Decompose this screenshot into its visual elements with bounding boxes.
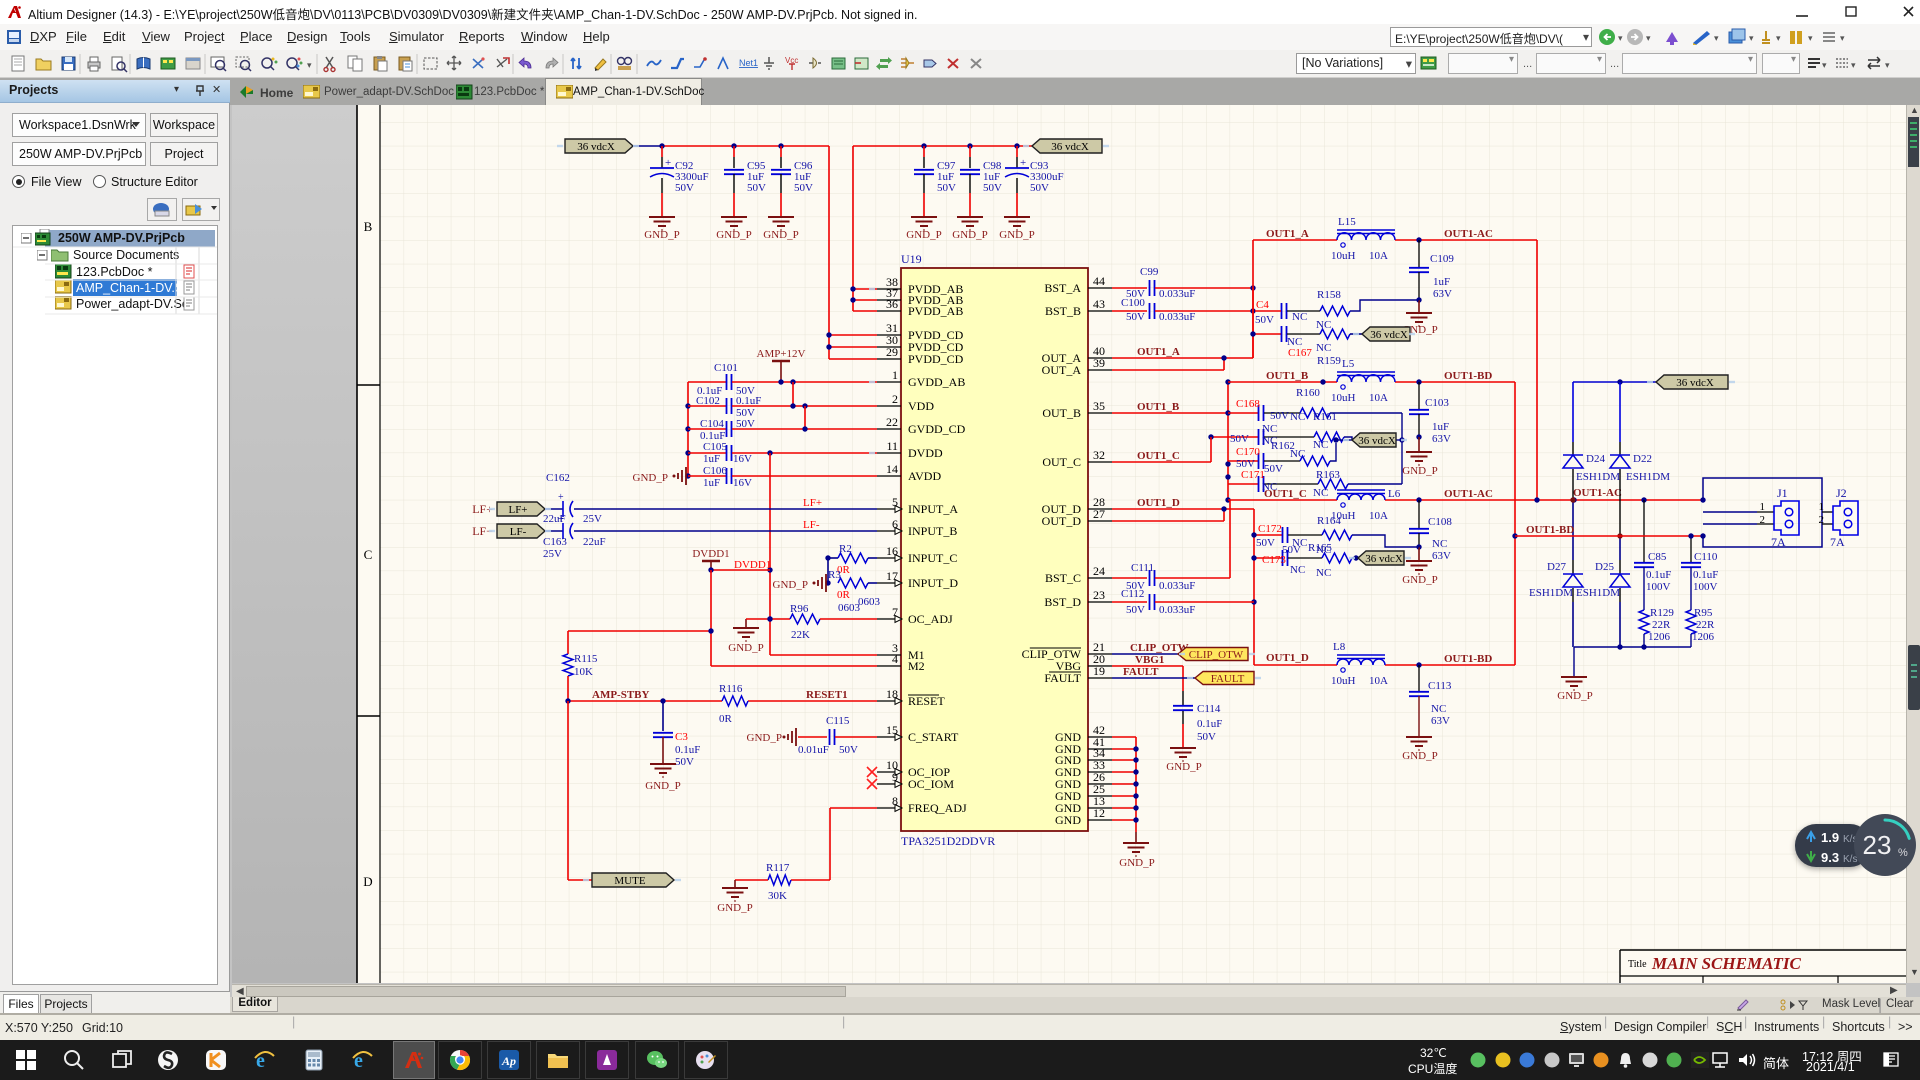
svg-text:7A: 7A: [1830, 535, 1845, 549]
title bar: [0, 0, 1920, 24]
svg-text:FAULT: FAULT: [1211, 673, 1245, 685]
resistor R164b: [1322, 530, 1352, 540]
svg-text:10A: 10A: [1369, 675, 1388, 687]
svg-text:D: D: [363, 874, 372, 889]
svg-text:63V: 63V: [1433, 288, 1452, 300]
pin 2 VDD: [877, 405, 901, 407]
capacitor C101: [688, 381, 726, 383]
ground GND_P at R117: [734, 880, 736, 888]
svg-text:▾: ▾: [1618, 33, 1623, 43]
capacitor C3: [662, 701, 664, 731]
port 36vdcX top-right: [1032, 139, 1102, 153]
svg-text:0.1uF: 0.1uF: [1197, 718, 1222, 730]
svg-text:0.1uF: 0.1uF: [736, 395, 761, 407]
svg-text:R117: R117: [766, 862, 790, 874]
ground GND_P under C114: [1170, 747, 1196, 749]
svg-text:GND_P: GND_P: [717, 902, 752, 914]
svg-text:R95: R95: [1694, 607, 1713, 619]
wire 36vdcX diode feed: [1573, 381, 1656, 383]
svg-text:FREQ_ADJ: FREQ_ADJ: [908, 801, 967, 815]
svg-text:GND_P: GND_P: [1402, 750, 1437, 762]
svg-text:0603: 0603: [858, 596, 881, 608]
capacitor C103: [1418, 382, 1420, 409]
resistor R117: [768, 875, 791, 885]
wire VDD jogs: [778, 379, 783, 384]
taskbar: [0, 1040, 1920, 1080]
pin 35 OUT_B: [1088, 412, 1112, 414]
svg-text:▾: ▾: [1749, 33, 1754, 43]
net speed widget: [1795, 824, 1871, 867]
svg-text:C105: C105: [703, 441, 727, 453]
svg-text:R161: R161: [1313, 411, 1337, 423]
svg-text:OUT1_B: OUT1_B: [1266, 370, 1309, 382]
svg-text:R163: R163: [1316, 469, 1340, 481]
pin 3 M1: [877, 654, 901, 656]
port 36vdcX right: [1656, 375, 1728, 389]
svg-text:0.01uF: 0.01uF: [798, 744, 829, 756]
svg-text:4: 4: [892, 652, 898, 666]
pin 4 M2: [877, 665, 901, 667]
svg-text:ESH1DM: ESH1DM: [1626, 471, 1670, 483]
svg-text:1.9: 1.9: [1821, 830, 1839, 845]
svg-text:R3: R3: [828, 569, 841, 581]
ground GND_P under C98: [957, 216, 983, 218]
svg-text:24: 24: [1093, 564, 1105, 578]
capacitor C109: [1418, 240, 1420, 267]
svg-text:R2: R2: [839, 543, 852, 555]
svg-text:ESH1DM: ESH1DM: [1576, 471, 1620, 483]
resistor R161: [1314, 432, 1344, 442]
svg-text:50V: 50V: [1230, 433, 1249, 445]
svg-text:D22: D22: [1633, 453, 1652, 465]
svg-text:50V: 50V: [1126, 604, 1145, 616]
svg-text:L15: L15: [1338, 216, 1356, 228]
svg-text:36 vdcX: 36 vdcX: [577, 141, 615, 153]
diode D24: [1572, 382, 1574, 442]
svg-text:LF+: LF+: [803, 497, 822, 509]
resistor R116: [722, 696, 748, 706]
svg-text:50V: 50V: [675, 756, 694, 768]
svg-text:C114: C114: [1197, 703, 1221, 715]
pin 38 PVDD_AB: [877, 288, 901, 290]
capacitor C93: [1016, 146, 1018, 157]
capacitor C4: [1281, 303, 1283, 319]
svg-text:50V: 50V: [794, 182, 813, 194]
svg-text:NC: NC: [1262, 423, 1277, 435]
svg-text:J2: J2: [1836, 486, 1847, 500]
svg-text:C110: C110: [1694, 551, 1718, 563]
capacitor C104: [688, 428, 726, 430]
svg-text:0.033uF: 0.033uF: [1159, 604, 1195, 616]
wire INPUT_B: [574, 530, 877, 532]
pin 44 BST_A: [1088, 287, 1112, 289]
wire OUT_B vertical: [1227, 382, 1229, 500]
resistor R129: [1639, 610, 1649, 634]
capacitor C100: [1112, 310, 1147, 312]
ground GND_P under GND bus: [1135, 832, 1137, 843]
ground GND_P under C93: [1004, 216, 1030, 218]
svg-text:7A: 7A: [1771, 535, 1786, 549]
svg-text:25V: 25V: [583, 513, 602, 525]
svg-text:R96: R96: [790, 603, 809, 615]
pin 17 INPUT_D: [877, 582, 901, 584]
svg-text:OUT_D: OUT_D: [1042, 514, 1082, 528]
svg-text:36 vdcX: 36 vdcX: [1370, 329, 1408, 341]
svg-text:2: 2: [1760, 514, 1766, 526]
svg-text:C4: C4: [1256, 299, 1269, 311]
pin 28 OUT_D: [1088, 508, 1112, 510]
svg-text:1uF: 1uF: [1432, 421, 1449, 433]
svg-text:Title: Title: [1628, 959, 1647, 970]
svg-text:NC: NC: [1432, 538, 1447, 550]
svg-text:C101: C101: [714, 362, 738, 374]
svg-text:LF-: LF-: [803, 519, 820, 531]
svg-text:▾: ▾: [1851, 60, 1856, 70]
svg-text:C115: C115: [826, 715, 850, 727]
svg-text:INPUT_D: INPUT_D: [908, 576, 958, 590]
pin 41 GND: [1088, 748, 1112, 750]
wire GND bus: [1112, 736, 1136, 738]
pin 16 INPUT_C: [877, 557, 901, 559]
svg-text:ESH1DM: ESH1DM: [1529, 587, 1573, 599]
svg-text:10uH: 10uH: [1331, 392, 1356, 404]
tab bar: [0, 78, 1920, 105]
svg-text:R116: R116: [719, 683, 743, 695]
capacitor C168 row: [1228, 412, 1258, 414]
svg-text:C_START: C_START: [908, 730, 959, 744]
wire MUTE: [567, 701, 569, 880]
wire left cap bus: [687, 382, 689, 476]
svg-text:GVDD_CD: GVDD_CD: [908, 422, 966, 436]
capacitor C111: [1112, 577, 1147, 579]
svg-text:63V: 63V: [1432, 550, 1451, 562]
diode D27: [1572, 500, 1574, 560]
capacitor C105: [688, 452, 726, 454]
svg-text:BST_B: BST_B: [1045, 304, 1081, 318]
title block: [1620, 950, 1912, 983]
wire R2/R3 bus: [827, 558, 829, 583]
pin 14 AVDD: [877, 475, 901, 477]
svg-text:GND_P: GND_P: [633, 472, 668, 484]
capacitor C170 row: [1228, 460, 1258, 462]
pin 43 BST_B: [1088, 310, 1112, 312]
svg-text:C109: C109: [1430, 253, 1454, 265]
wire OUT1-AC vertical: [1536, 240, 1538, 500]
svg-text:C170: C170: [1236, 446, 1260, 458]
svg-text:PVDD_CD: PVDD_CD: [908, 352, 964, 366]
svg-text:C111: C111: [1131, 562, 1154, 574]
svg-text:0.1uF: 0.1uF: [1646, 569, 1671, 581]
svg-text:OUT_A: OUT_A: [1042, 363, 1082, 377]
svg-text:GND_P: GND_P: [1402, 465, 1437, 477]
svg-text:OUT1-BD: OUT1-BD: [1444, 370, 1492, 382]
wire OUT1_A rail: [1253, 239, 1337, 241]
svg-text:L6: L6: [1388, 488, 1401, 500]
pin 31 PVDD_CD: [877, 334, 901, 336]
svg-text:63V: 63V: [1431, 715, 1450, 727]
svg-text:22R: 22R: [1696, 619, 1715, 631]
svg-text:NC: NC: [1292, 311, 1307, 323]
pin 21 CLIP_OTW: [1088, 653, 1112, 655]
svg-text:▾: ▾: [1822, 60, 1827, 70]
svg-text:GND_P: GND_P: [1402, 574, 1437, 586]
svg-text:C113: C113: [1428, 680, 1452, 692]
wire PVDD_CD feed: [828, 146, 830, 359]
files/projects tabs: [0, 991, 230, 1013]
wire PVDD_AB feed: [852, 146, 854, 311]
pin 10 OC_IOP: [877, 771, 901, 773]
wire R115 top: [568, 630, 711, 632]
svg-text:C108: C108: [1428, 516, 1452, 528]
svg-text:R164: R164: [1317, 515, 1341, 527]
svg-text:VDD: VDD: [908, 399, 934, 413]
wire FAULT: [1112, 677, 1195, 679]
svg-text:INPUT_C: INPUT_C: [908, 551, 957, 565]
svg-text:100V: 100V: [1646, 581, 1671, 593]
wire OUT1_D rail: [1254, 664, 1337, 666]
wire top rail 1: [662, 145, 829, 147]
pin 18 RESET: [877, 700, 901, 702]
capacitor C99: [1112, 287, 1147, 289]
svg-text:50V: 50V: [1264, 463, 1283, 475]
svg-text:1: 1: [1760, 501, 1766, 513]
toolbar: [0, 50, 1920, 78]
svg-text:OUT1_D: OUT1_D: [1266, 652, 1309, 664]
capacitor C85 chain: [1643, 500, 1645, 562]
svg-text:22R: 22R: [1652, 619, 1671, 631]
wire OUT1-BD vertical: [1514, 382, 1516, 665]
resistor R96: [746, 618, 790, 620]
svg-text:NC: NC: [1316, 567, 1331, 579]
capacitor C114: [1182, 666, 1184, 691]
capacitor C167 row: [1252, 288, 1254, 358]
svg-text:OUT1_C: OUT1_C: [1137, 450, 1180, 462]
pin 8 FREQ_ADJ: [877, 807, 901, 809]
svg-text:▾: ▾: [1714, 33, 1719, 43]
svg-text:VBG1: VBG1: [1135, 654, 1164, 666]
svg-text:50V: 50V: [1270, 410, 1289, 422]
svg-text:1uF: 1uF: [703, 453, 720, 465]
pin 11 DVDD: [877, 452, 901, 454]
pin 27 OUT_D: [1088, 520, 1112, 522]
ground GND_P under C113: [1406, 736, 1432, 738]
capacitor C113: [1418, 665, 1420, 691]
svg-text:23: 23: [1093, 588, 1105, 602]
svg-text:22K: 22K: [791, 629, 810, 641]
svg-text:D24: D24: [1586, 453, 1605, 465]
svg-text:OUT1_A: OUT1_A: [1266, 228, 1309, 240]
svg-text:CLIP_OTW: CLIP_OTW: [1189, 649, 1244, 661]
wire to gnd: [735, 879, 768, 881]
svg-text:▾: ▾: [1840, 33, 1845, 43]
svg-text:OUT1-AC: OUT1-AC: [1573, 487, 1622, 499]
svg-text:25V: 25V: [543, 548, 562, 560]
svg-text:▾: ▾: [1776, 33, 1781, 43]
svg-text:10uH: 10uH: [1331, 675, 1356, 687]
svg-text:BST_D: BST_D: [1044, 595, 1081, 609]
svg-text:2: 2: [892, 392, 898, 406]
svg-text:35: 35: [1093, 399, 1105, 413]
port 36vdcX snubber C: [1358, 551, 1404, 565]
svg-text:LF+: LF+: [508, 504, 527, 516]
capacitor C98: [969, 146, 971, 157]
svg-text:19: 19: [1093, 664, 1105, 678]
svg-text:OUT_B: OUT_B: [1042, 406, 1081, 420]
pin 12 GND: [1088, 819, 1112, 821]
wire M1: [770, 654, 877, 656]
svg-text:R158: R158: [1317, 289, 1341, 301]
svg-text:11: 11: [886, 439, 898, 453]
svg-text:0R: 0R: [837, 589, 851, 601]
svg-text:C100: C100: [1121, 297, 1145, 309]
capacitor C96: [780, 146, 782, 157]
svg-text:R115: R115: [574, 653, 598, 665]
op-amp U19 TPA3251D2DDVR body: [901, 268, 1088, 831]
svg-text:36 vdcX: 36 vdcX: [1365, 553, 1403, 565]
wire OUT1-BD row: [1515, 535, 1703, 537]
pin 13 GND: [1088, 807, 1112, 809]
svg-text:50V: 50V: [1282, 544, 1301, 556]
svg-text:GND_P: GND_P: [906, 229, 941, 241]
svg-text:J1: J1: [1777, 486, 1788, 500]
svg-text:2: 2: [1819, 514, 1825, 526]
port 36vdcX snubber B: [1336, 439, 1352, 441]
svg-text:36 vdcX: 36 vdcX: [1051, 141, 1089, 153]
svg-text:+: +: [558, 514, 564, 525]
left panel: [0, 80, 230, 991]
svg-text:50V: 50V: [1197, 731, 1216, 743]
svg-text:NC: NC: [1431, 703, 1446, 715]
inductor L6: [1337, 494, 1385, 500]
svg-text:OUT1-AC: OUT1-AC: [1444, 488, 1493, 500]
pin 29 PVDD_CD: [877, 358, 901, 360]
svg-text:1uF: 1uF: [1433, 276, 1450, 288]
svg-text:C163: C163: [543, 536, 567, 548]
capacitor C108: [1418, 500, 1420, 528]
svg-text:10K: 10K: [574, 666, 593, 678]
svg-text:INPUT_B: INPUT_B: [908, 524, 957, 538]
diode D22: [1619, 382, 1621, 442]
ground GND_P under C92: [649, 216, 675, 218]
svg-text:36 vdcX: 36 vdcX: [1676, 377, 1714, 389]
port CLIP_OTW: [1178, 648, 1248, 661]
pin 34 GND: [1088, 759, 1112, 761]
ground GND_P under C97: [911, 216, 937, 218]
svg-text:OUT1-AC: OUT1-AC: [1444, 228, 1493, 240]
pin 6 INPUT_B: [877, 530, 901, 532]
pin 15 C_START: [877, 736, 901, 738]
svg-text:OUT1-BD: OUT1-BD: [1526, 524, 1574, 536]
port 36vdcX at R159: [1362, 327, 1410, 341]
svg-text:50V: 50V: [1030, 182, 1049, 194]
svg-text:GVDD_AB: GVDD_AB: [908, 375, 965, 389]
port MUTE: [592, 873, 674, 887]
svg-text:1: 1: [892, 368, 898, 382]
wire DVDD1: [711, 569, 770, 571]
svg-text:DVDD1: DVDD1: [692, 548, 729, 560]
svg-text:▾: ▾: [1646, 33, 1651, 43]
svg-text:Net1: Net1: [739, 58, 758, 68]
pin 24 BST_C: [1088, 577, 1112, 579]
pin 20 VBG: [1088, 665, 1112, 667]
wire VBG: [1112, 665, 1183, 667]
svg-text:GND_P: GND_P: [747, 732, 782, 744]
svg-text:50V: 50V: [1126, 311, 1145, 323]
svg-text:ESH1DM: ESH1DM: [1576, 587, 1620, 599]
svg-text:GND_P: GND_P: [763, 229, 798, 241]
wire OUT_C: [1112, 461, 1211, 463]
svg-text:AMP+12V: AMP+12V: [757, 348, 806, 360]
resistor R165: [1322, 553, 1352, 563]
svg-text:NC: NC: [1313, 487, 1328, 499]
svg-text:C171: C171: [1241, 469, 1265, 481]
svg-text:32: 32: [1093, 448, 1105, 462]
port FAULT: [1195, 672, 1254, 685]
svg-text:0.033uF: 0.033uF: [1159, 288, 1195, 300]
svg-text:10A: 10A: [1369, 510, 1388, 522]
wire diode gnd bus: [1574, 646, 1691, 648]
ground GND_P left of C106: [673, 475, 676, 478]
svg-text:50V: 50V: [1256, 537, 1275, 549]
svg-text:D27: D27: [1547, 561, 1566, 573]
resistor R115: [567, 631, 569, 654]
horizontal scrollbar: [232, 984, 1906, 997]
svg-text:NC: NC: [1290, 411, 1305, 423]
svg-text:MAIN SCHEMATIC: MAIN SCHEMATIC: [1651, 954, 1801, 973]
svg-text:50V: 50V: [983, 182, 1002, 194]
capacitor C95: [733, 146, 735, 157]
svg-text:C106: C106: [703, 465, 727, 477]
pin 1 GVDD_AB: [877, 381, 901, 383]
resistor R158: [1350, 300, 1419, 311]
resistor R162: [1300, 456, 1330, 466]
svg-text:C162: C162: [546, 472, 570, 484]
svg-text:L8: L8: [1333, 641, 1346, 653]
svg-text:GND_P: GND_P: [645, 780, 680, 792]
svg-text:NC: NC: [1313, 439, 1328, 451]
right path combo: [1390, 27, 1592, 47]
svg-text:C: C: [364, 547, 373, 562]
svg-text:16V: 16V: [733, 453, 752, 465]
pin 39 OUT_A: [1088, 369, 1112, 371]
capacitor C97: [923, 146, 925, 157]
svg-text:+: +: [665, 157, 671, 169]
svg-text:OUT1_C: OUT1_C: [1264, 488, 1307, 500]
wire: [633, 145, 662, 147]
pin 32 OUT_C: [1088, 461, 1112, 463]
svg-text:R129: R129: [1650, 607, 1674, 619]
svg-text:C168: C168: [1236, 398, 1260, 410]
svg-text:27: 27: [1093, 507, 1105, 521]
svg-text:C85: C85: [1648, 551, 1667, 563]
svg-text:22uF: 22uF: [583, 536, 606, 548]
svg-text:C167: C167: [1288, 347, 1312, 359]
wire OUT_A vertical: [1252, 240, 1254, 358]
pin 36 PVDD_AB: [877, 310, 901, 312]
svg-text:9.3: 9.3: [1821, 850, 1839, 865]
svg-text:OC_IOM: OC_IOM: [908, 777, 954, 791]
capacitor C173 row: [1254, 557, 1282, 559]
svg-text:OUT1_D: OUT1_D: [1137, 497, 1180, 509]
svg-text:30K: 30K: [768, 890, 787, 902]
menu bar: [0, 24, 1920, 50]
pin 5 INPUT_A: [877, 508, 901, 510]
svg-text:GND_P: GND_P: [716, 229, 751, 241]
svg-text:%: %: [1898, 847, 1908, 859]
svg-text:D25: D25: [1595, 561, 1614, 573]
svg-text:0R: 0R: [719, 713, 733, 725]
svg-text:R159: R159: [1317, 355, 1341, 367]
